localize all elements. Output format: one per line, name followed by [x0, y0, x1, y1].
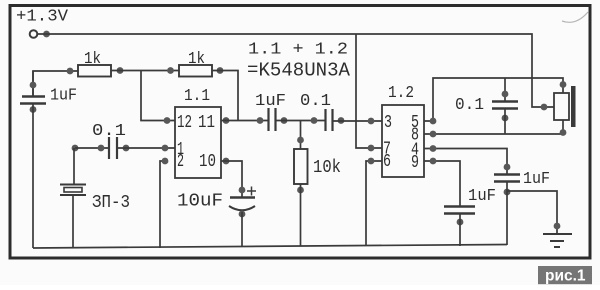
wire pin4 to C8: [424, 149, 507, 175]
node pin2: [162, 158, 169, 165]
capacitor C7 plates: [492, 100, 518, 102]
node C1 top: [30, 82, 37, 89]
svg-text:1.1 + 1.2: 1.1 + 1.2: [248, 40, 348, 59]
wire pin2 to bus: [160, 161, 165, 248]
node pin3: [368, 118, 375, 125]
node C5 left: [311, 117, 318, 124]
node C1 bottom: [30, 106, 37, 113]
svg-text:11: 11: [198, 112, 215, 133]
node C3 left: [257, 117, 264, 124]
wire pin10 to C4: [221, 161, 242, 197]
svg-text:1uF: 1uF: [468, 187, 496, 206]
svg-text:9: 9: [411, 152, 419, 173]
wire pin11 row: [221, 120, 268, 122]
node R1 left: [67, 68, 74, 75]
node C5 right: [338, 117, 345, 124]
op-amp U1.1 box: [175, 107, 221, 178]
svg-text:=K548UN3A: =K548UN3A: [247, 60, 351, 82]
wire pin8 row: [424, 133, 563, 135]
resistor R3 10k: [294, 149, 308, 184]
node speaker top: [560, 81, 567, 88]
wire speaker bottom: [562, 120, 564, 134]
svg-text:рис.1: рис.1: [545, 268, 586, 285]
wire pin9 to C6: [424, 161, 460, 206]
node 10k top: [297, 137, 304, 144]
svg-text:1uF: 1uF: [50, 87, 77, 106]
node pin6: [368, 158, 375, 165]
wire pin5 up and over to speaker: [424, 78, 563, 121]
svg-text:10: 10: [199, 151, 216, 172]
node C7 bottom: [502, 115, 509, 122]
node pin1: [162, 145, 169, 152]
wire 10k to bus: [300, 184, 302, 246]
capacitor C2 plates: [108, 137, 110, 159]
svg-text:0.1: 0.1: [455, 96, 484, 115]
wire C6 to bus: [459, 214, 461, 247]
svg-text:3: 3: [384, 112, 392, 133]
wire C4 to bus: [241, 212, 243, 247]
svg-text:1.1: 1.1: [184, 87, 210, 106]
svg-text:0.1: 0.1: [300, 92, 331, 111]
wire C7 stem top: [504, 78, 506, 101]
junction dot: [43, 31, 50, 38]
wire C1 to bus: [32, 104, 34, 249]
wire C2 down to piezo: [73, 148, 75, 184]
node C2 plate left: [98, 145, 105, 152]
wire C3 to C5: [275, 120, 325, 122]
node 10k bottom: [297, 187, 304, 194]
wire C8 to bus: [506, 182, 508, 246]
node pin7: [368, 145, 375, 152]
node C4 bottom: [239, 211, 246, 218]
node C4 top: [239, 187, 246, 194]
node pin4: [430, 145, 437, 152]
capacitor C4 curved plate: [229, 206, 255, 210]
speaker BA1 bar: [571, 86, 576, 127]
capacitor C5 plates: [324, 109, 326, 131]
resistor R1: [78, 65, 111, 77]
wire ground bus: [33, 245, 507, 249]
capacitor C6 plates: [444, 205, 475, 207]
speaker BA1 coil: [554, 93, 569, 120]
node R2 right: [217, 67, 224, 74]
wire C8 to ground: [507, 191, 557, 233]
svg-text:10k: 10k: [313, 157, 341, 178]
wire R2 feedback to pin11: [212, 71, 238, 121]
wire C5 to pin3: [332, 120, 382, 122]
terminal circle: [30, 30, 38, 38]
wire C7 stem bottom: [504, 109, 506, 135]
node pin10: [223, 158, 230, 165]
node C8 bottom: [504, 189, 511, 196]
scan artifact arc top right: [562, 12, 588, 22]
svg-text:6: 6: [383, 151, 391, 172]
plus sign C4: [247, 190, 256, 192]
node speaker left: [541, 104, 548, 111]
figure label box: [538, 266, 592, 284]
svg-text:1uF: 1uF: [523, 170, 550, 189]
wire left input top: [33, 71, 78, 96]
node speaker bottom: [560, 129, 567, 136]
node pin8: [430, 131, 437, 138]
wire 10k drop: [300, 121, 302, 150]
svg-text:2: 2: [177, 151, 184, 172]
op-amp U1.2 box: [382, 105, 424, 177]
node R1 right: [117, 67, 124, 74]
node ground: [554, 223, 561, 230]
node pin11: [223, 117, 230, 124]
wire R1 to R2: [111, 70, 179, 72]
node C8 top: [504, 164, 511, 171]
node C2 junction left: [72, 145, 79, 152]
svg-text:+1.3V: +1.3V: [16, 7, 68, 26]
capacitor C4 10uF plate: [230, 196, 255, 198]
node C3 right: [281, 117, 288, 124]
capacitor C1 1uF stem top: [32, 71, 34, 96]
svg-text:12: 12: [177, 112, 192, 133]
wire C2 left: [75, 147, 108, 149]
svg-text:1k: 1k: [84, 50, 101, 69]
wire +1.3V rail: [38, 34, 555, 107]
capacitor C8 plates: [494, 173, 520, 175]
piezo BQ1 ZP-3: [60, 185, 86, 196]
node C6 bottom: [457, 219, 464, 226]
wire pin6 to bus: [366, 161, 382, 246]
svg-text:ЗП-3: ЗП-3: [92, 193, 130, 213]
ground: [543, 234, 572, 247]
wire junction down to pin12: [141, 71, 175, 121]
node pin12: [164, 117, 171, 124]
node C7 top: [502, 91, 509, 98]
node pin5: [430, 118, 437, 125]
capacitor C1 plates: [22, 95, 45, 97]
node R2 left: [167, 67, 174, 74]
wire C2 to pin1: [117, 147, 175, 149]
svg-text:10uF: 10uF: [177, 191, 223, 212]
node pin9: [430, 158, 437, 165]
svg-text:1uF: 1uF: [255, 91, 286, 110]
wire rail to pin7: [356, 34, 382, 148]
svg-text:1k: 1k: [188, 50, 205, 69]
capacitor C3 plates: [267, 108, 269, 131]
node C2 plate right: [123, 145, 130, 152]
svg-text:1.2: 1.2: [388, 84, 414, 103]
resistor R2: [179, 65, 212, 77]
wire piezo to bus: [72, 195, 74, 248]
